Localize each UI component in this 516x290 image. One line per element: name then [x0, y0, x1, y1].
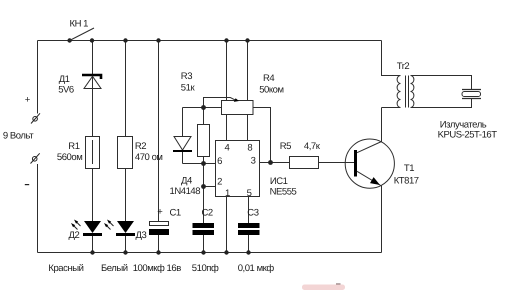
LED D3 [104, 220, 146, 242]
node A dot [201, 105, 206, 110]
piezo emitter KPUS-25T-16T [438, 90, 498, 141]
capacitor C2 [193, 207, 215, 235]
svg-text:+: + [25, 95, 31, 106]
svg-text:100мкф 16в: 100мкф 16в [133, 263, 182, 274]
transistor T1 KT817 [345, 139, 419, 188]
wire R5 to base [319, 162, 355, 164]
svg-text:КТ817: КТ817 [394, 175, 419, 186]
switch KN1 [67, 18, 94, 42]
node dots top rail [123, 38, 249, 42]
svg-text:КН 1: КН 1 [70, 18, 89, 29]
svg-text:C3: C3 [247, 207, 258, 218]
resistor R2 [118, 137, 163, 169]
svg-text:560ом: 560ом [57, 152, 82, 163]
wire R2 LED column [125, 41, 127, 253]
svg-text:3: 3 [251, 155, 256, 166]
svg-text:R3: R3 [181, 71, 192, 82]
wire transformer primary bottom [382, 107, 401, 109]
wire pin5 to C3 [248, 197, 250, 253]
svg-text:Д1: Д1 [59, 74, 70, 85]
svg-text:2: 2 [217, 176, 222, 187]
battery connector plus [31, 113, 40, 123]
svg-text:4,7к: 4,7к [304, 141, 321, 152]
svg-text:Tr2: Tr2 [397, 61, 410, 72]
svg-text:R1: R1 [68, 141, 79, 152]
svg-text:1: 1 [225, 188, 230, 199]
wire battery plus vertical [37, 41, 39, 114]
wire secondary bottom lead [411, 99, 472, 108]
wire pin4 supply drop [226, 41, 228, 141]
watermark red bar [302, 285, 345, 290]
svg-text:8: 8 [247, 143, 252, 154]
wire pin2 to C2 [203, 187, 205, 253]
svg-text:ИС1: ИС1 [270, 176, 288, 187]
capacitor C3 [238, 207, 260, 235]
LED D2 [69, 220, 103, 242]
svg-text:KPUS-25T-16T: KPUS-25T-16T [438, 130, 498, 141]
svg-text:51к: 51к [181, 83, 196, 94]
resistor R3 [181, 71, 210, 156]
wire R3 leads [203, 108, 205, 164]
svg-text:+: + [157, 207, 163, 218]
wire pin6 horizontal [183, 163, 216, 165]
wire pin3 to R5 [260, 162, 290, 164]
svg-text:NE555: NE555 [270, 186, 297, 197]
battery connector minus [31, 153, 40, 163]
wire node A horizontal [183, 107, 222, 109]
svg-text:0,01 мкф: 0,01 мкф [238, 263, 275, 274]
wire secondary top lead [411, 76, 472, 90]
svg-text:Белый: Белый [101, 263, 128, 274]
wire collector to transformer [381, 108, 383, 142]
wire pin6 to pin2 vertical [203, 164, 205, 187]
svg-text:Д3: Д3 [136, 230, 147, 241]
svg-text:510пф: 510пф [192, 263, 219, 274]
capacitor C1 [149, 207, 181, 235]
node pin3 dot [268, 160, 273, 165]
svg-text:R4: R4 [263, 73, 274, 84]
wire rail to transformer primary top [382, 41, 401, 76]
svg-text:R5: R5 [280, 141, 291, 152]
node pin2 dot [201, 184, 206, 189]
svg-text:9 Вольт: 9 Вольт [3, 131, 34, 142]
timer IC1 NE555 [216, 141, 297, 199]
wire pin1 to rail [226, 197, 228, 253]
resistor R5 [280, 141, 321, 169]
svg-text:Т1: Т1 [404, 163, 414, 174]
svg-text:1N4148: 1N4148 [170, 186, 201, 197]
svg-text:Красный: Красный [48, 263, 83, 274]
diode D4 [170, 137, 201, 197]
potentiometer R4 [222, 73, 284, 114]
svg-text:C1: C1 [170, 208, 181, 219]
battery labels [3, 95, 34, 186]
svg-text:Д4: Д4 [181, 175, 192, 186]
watermark smudge [336, 283, 341, 285]
svg-text:6: 6 [217, 156, 222, 167]
svg-text:C2: C2 [202, 207, 213, 218]
wire R4 wiper [204, 98, 237, 108]
wire R4 right to pin3 [253, 108, 271, 163]
svg-text:Д2: Д2 [69, 230, 80, 241]
node dots bottom rail [90, 250, 250, 254]
svg-text:R2: R2 [135, 141, 146, 152]
wire top rail [38, 40, 382, 42]
resistor R1 [57, 137, 100, 169]
svg-text:5: 5 [247, 188, 252, 199]
transformer Tr2 [397, 76, 414, 108]
wire zener R1 LED column [92, 41, 94, 253]
wire bottom rail [38, 252, 382, 254]
wire D4 branch [182, 108, 184, 164]
svg-text:4: 4 [224, 143, 229, 154]
svg-text:5V6: 5V6 [58, 85, 74, 96]
wire C1 column [158, 41, 160, 253]
node pin6 dot [201, 161, 206, 166]
wire battery minus vertical [37, 164, 39, 253]
svg-text:50ком: 50ком [259, 85, 283, 96]
zener diode D1 [58, 74, 101, 137]
wire emitter to rail [381, 186, 383, 253]
wire pin2 horizontal [204, 186, 216, 188]
svg-text:470 ом: 470 ом [135, 152, 163, 163]
wire pin8 supply drop [247, 41, 249, 141]
